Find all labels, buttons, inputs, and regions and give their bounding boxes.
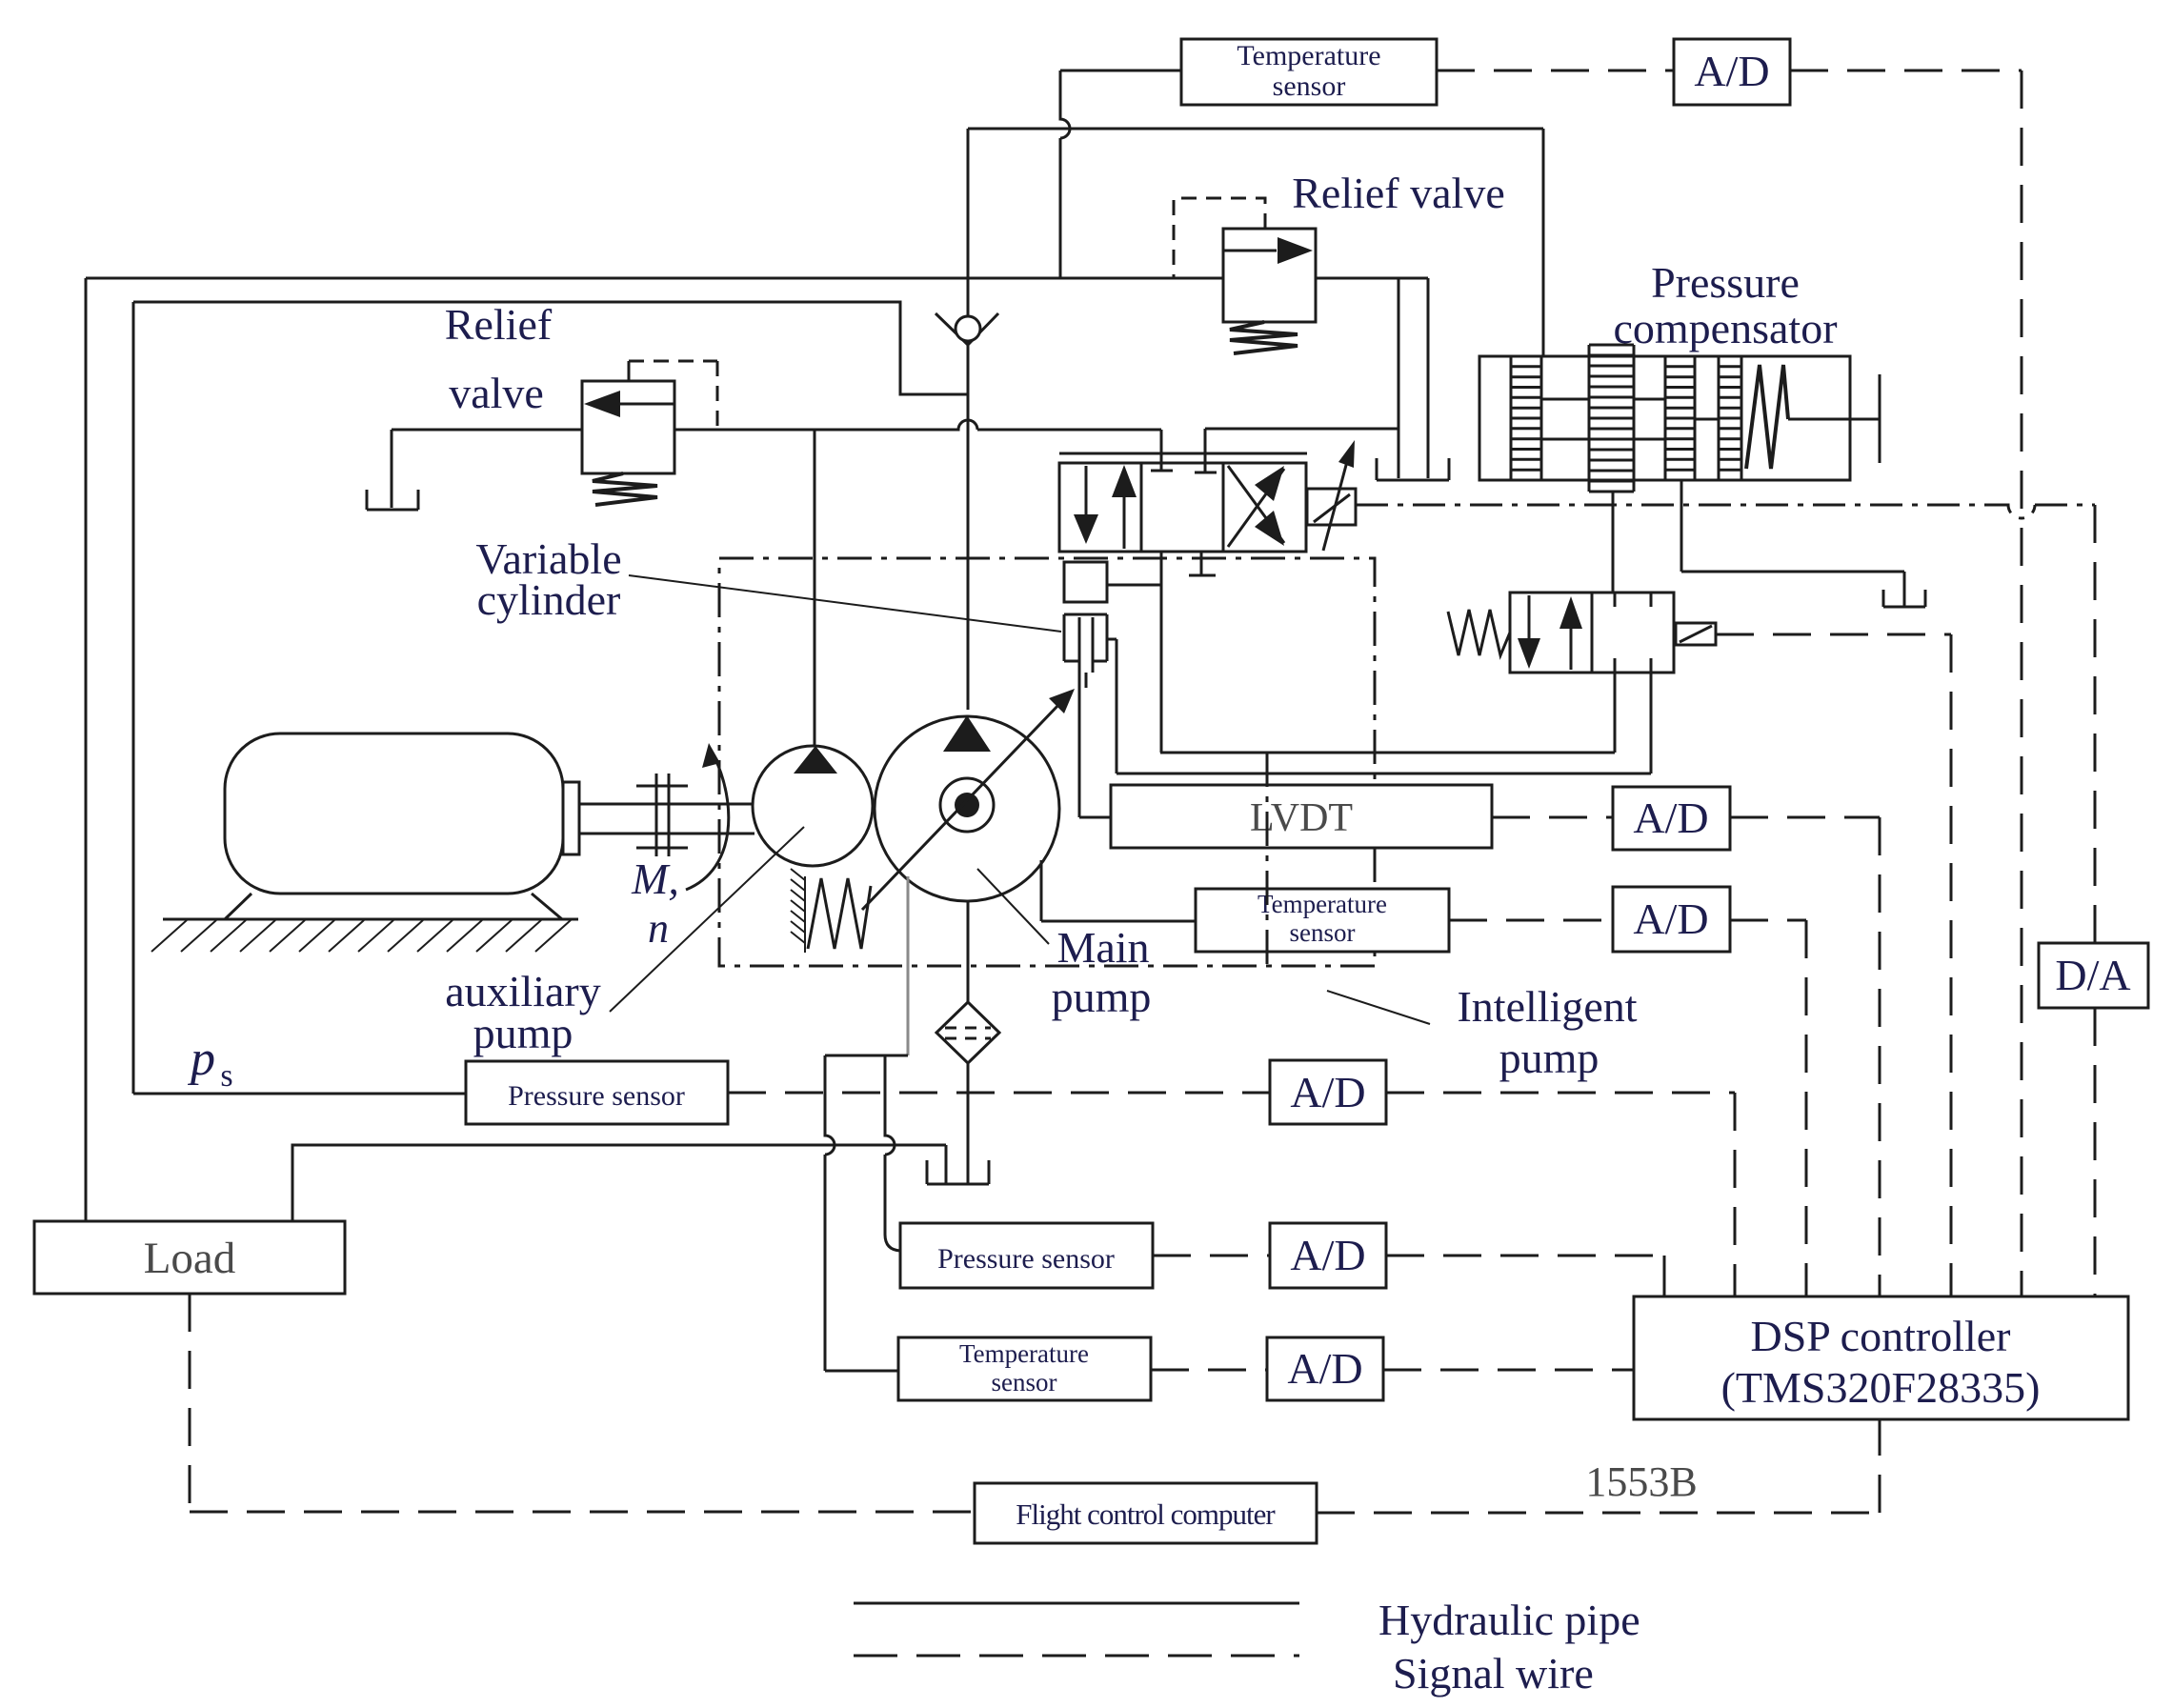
Temperature sensor box 3: [898, 1337, 1151, 1400]
check valve on main riser: [936, 313, 998, 345]
wire inner-rect left: [132, 302, 135, 1094]
wire cylinder upper port to servo pilot: [1107, 584, 1161, 587]
main pump circle: [875, 716, 1059, 901]
main pump variable-displacement arrow: [862, 703, 1060, 910]
servo valve V1 body left cell: [1059, 463, 1141, 552]
wire drain header to sensors: [825, 1055, 908, 1057]
wire loop y=812 to 2-pos valve right port: [1117, 673, 1651, 774]
2-pos valve V2 arrows: [1528, 595, 1531, 640]
wire main pump outlet down to filter: [967, 901, 970, 1002]
svg-text:Main: Main: [1056, 923, 1149, 972]
wire outer-rect top: main supply line y=292: [86, 277, 1428, 280]
wire temperature-sensor tap with jump arc over y=135 header: [1060, 70, 1183, 278]
wire drop from main line x=1468 to tank B: [1398, 278, 1400, 478]
main pump triangle: [943, 715, 991, 752]
compensator spring: [1746, 365, 1788, 469]
svg-text:A/D: A/D: [1633, 794, 1708, 842]
signal wire 1553B bus: [1317, 1512, 1880, 1515]
servo valve V1 body mid cell: [1141, 463, 1223, 552]
wire filter to tank C: [967, 1063, 970, 1184]
auxiliary pump circle: [753, 746, 873, 866]
2-pos valve V2 solenoid: [1676, 623, 1716, 645]
wire LVDT pickup from cylinder: [1079, 673, 1111, 817]
2-pos valve V2 spring: [1448, 610, 1510, 655]
svg-text:Temperature: Temperature: [959, 1339, 1089, 1368]
svg-text:A/D: A/D: [1694, 47, 1769, 95]
svg-text:A/D: A/D: [1287, 1344, 1362, 1393]
2-pos valve V2 left cell: [1510, 593, 1592, 673]
servo valve V1 proportional solenoid box: [1307, 489, 1356, 525]
svg-text:A/D: A/D: [1633, 894, 1708, 943]
wire auxiliary-pump riser x=855: [814, 430, 816, 746]
variable cylinder upper chamber: [1064, 562, 1107, 602]
compensator ladder band D: [1719, 356, 1741, 480]
signal wire LVDT to A/D: [1492, 816, 1613, 819]
svg-text:Pressure sensor: Pressure sensor: [937, 1243, 1115, 1275]
svg-text:pump: pump: [1499, 1034, 1600, 1082]
signal wire ps1 A/D down to DSP: [1386, 1092, 1735, 1095]
Load box: [34, 1221, 345, 1294]
compensator spring seat line and anchor: [1788, 374, 1880, 463]
svg-text:sensor: sensor: [992, 1368, 1057, 1397]
motor supports: [225, 894, 562, 919]
motor body: [225, 733, 563, 894]
rotation arrow: [686, 757, 729, 890]
svg-text:A/D: A/D: [1290, 1068, 1365, 1116]
LVDT mechanical link (dash-dot): [1266, 753, 1269, 966]
svg-text:D/A: D/A: [2055, 951, 2130, 999]
shaft coupling: [636, 774, 688, 856]
Temperature sensor box 1 (top): [1181, 39, 1437, 105]
servo valve V1 cover line: [1059, 452, 1307, 455]
signal wire ps2 to A/D: [1153, 1255, 1270, 1257]
D/A box: [2039, 943, 2148, 1008]
svg-text:Temperature: Temperature: [1258, 890, 1387, 918]
A/D box LVDT row: [1613, 787, 1730, 850]
wire main pump to temp sensor 2: [1041, 860, 1196, 921]
LVDT box: [1111, 785, 1492, 848]
signal wire Load to flight control computer (dashed): [189, 1294, 191, 1512]
tank B (top relief valve drain): [1377, 458, 1449, 480]
compensator step connectors: [1541, 399, 1719, 439]
A/D box ps2 row: [1270, 1223, 1386, 1288]
relief valve (top) body: [1223, 229, 1316, 322]
svg-text:pump: pump: [1052, 973, 1152, 1021]
relief valve (top) spring: [1230, 322, 1298, 353]
A/D box top: [1674, 39, 1790, 105]
intelligent pump boundary (dash-dot): [719, 558, 1375, 966]
signal wire LVDT A/D down to DSP: [1730, 816, 1880, 819]
wire compensator spool to 2-pos valve top port: [1612, 492, 1615, 593]
servo valve V1 right cell crossed arrows: [1228, 469, 1284, 547]
svg-text:Flight control computer: Flight control computer: [1016, 1497, 1276, 1531]
signal wire solenoid V2 to DSP: [1716, 633, 1951, 636]
svg-text:DSP controller: DSP controller: [1751, 1312, 2011, 1360]
wire top relief valve outlet drop x=1499: [1427, 278, 1430, 478]
wire outer-rect left: supply line ps down to Load: [85, 278, 88, 1221]
svg-text:compensator: compensator: [1613, 304, 1837, 352]
legend hydraulic pipe sample: [854, 1602, 1299, 1605]
filter diamond: [936, 1002, 999, 1063]
wire return from Load line into tank C: [945, 1145, 948, 1184]
svg-text:(TMS320F28335): (TMS320F28335): [1721, 1363, 2041, 1412]
relief valve (left) arrow: [619, 403, 674, 406]
signal wire A/D top to right bus x=2122: [1790, 70, 2022, 72]
signal wire temp3 to A/D: [1151, 1369, 1267, 1372]
auxiliary pump swash spring: [808, 878, 871, 949]
relief valve (top) arrow: [1223, 250, 1277, 252]
motor flange: [563, 782, 579, 854]
wire tank drop left relief valve: [391, 430, 393, 508]
svg-text:Pressure: Pressure: [1651, 258, 1800, 307]
auxiliary pump swash spring hatch wall: [791, 869, 805, 953]
compensator drain to 2-pos valve area: [1681, 480, 1904, 607]
svg-text:valve: valve: [449, 369, 544, 417]
DSP controller box: [1634, 1296, 2128, 1419]
pointer variable cylinder: [629, 575, 1061, 632]
relief valve (left) spring: [593, 473, 657, 505]
wire sensor drop x=929 with jump arc, hook into Pressure sensor 2: [885, 1055, 900, 1251]
signal wire temp3 A/D to DSP left edge: [1383, 1369, 1634, 1372]
variable cylinder rod: [1079, 617, 1093, 688]
ground line and hatching: [163, 918, 578, 921]
motor shaft: [579, 804, 755, 834]
svg-text:M,: M,: [631, 854, 679, 903]
svg-text:Relief: Relief: [445, 300, 553, 349]
signal wire D/A to DSP: [2094, 1008, 2097, 1296]
compensator ladder band B (tall): [1589, 345, 1634, 492]
pointer intelligent pump: [1327, 991, 1430, 1024]
svg-text:Load: Load: [144, 1234, 236, 1283]
pointer auxiliary pump: [610, 827, 804, 1012]
wire loop y=790 to 2-pos valve left port: [1160, 673, 1615, 753]
auxiliary pump triangle: [794, 746, 837, 774]
svg-text:n: n: [648, 905, 669, 952]
Flight control computer box: [975, 1483, 1317, 1543]
pressure compensator outer box: [1479, 356, 1850, 480]
svg-text:Intelligent: Intelligent: [1457, 982, 1637, 1031]
legend signal wire sample: [854, 1655, 1299, 1658]
svg-text:Signal wire: Signal wire: [1393, 1649, 1594, 1698]
variable cylinder lower chamber walls: [1064, 614, 1107, 673]
A/D box temp2 row: [1613, 887, 1730, 952]
Temperature sensor box 2: [1196, 889, 1449, 952]
2-pos valve V2 bottom ports to loops: [1615, 673, 1651, 774]
relief valve (top) pilot dashed: [1174, 198, 1265, 278]
svg-text:cylinder: cylinder: [477, 575, 621, 624]
wire cylinder lower port: [1107, 639, 1117, 774]
svg-text:sensor: sensor: [1290, 918, 1356, 947]
svg-text:pump: pump: [473, 1009, 573, 1057]
wire relief-valve branch y=451 with jump arc over x=1016: [392, 420, 1161, 430]
servo valve V1 top pilots: [1151, 430, 1173, 471]
signal wire temp1 to A/D: [1437, 70, 1674, 72]
relief valve (left) body: [582, 381, 674, 473]
A/D box temp3 row: [1267, 1337, 1383, 1400]
wire check-valve / main-pump riser x=1016: [967, 129, 970, 710]
signal wire servo solenoid to DSP (dash-dot) with jog over x=2122: [1356, 505, 2095, 518]
signal wire ps1 to A/D: [728, 1092, 1270, 1095]
wire top header y=135 to pressure compensator: [968, 129, 1543, 356]
signal wire temp2 A/D down to DSP: [1730, 919, 1806, 922]
2-pos valve V2 right cell: [1592, 593, 1674, 673]
svg-text:p: p: [187, 1032, 215, 1086]
wire Load to tank return line: [292, 1145, 946, 1221]
svg-text:Pressure sensor: Pressure sensor: [508, 1080, 685, 1112]
signal wire ps2 A/D to DSP: [1386, 1255, 1664, 1257]
pointer main pump: [977, 869, 1049, 944]
svg-text:Temperature: Temperature: [1237, 40, 1380, 71]
wire sensor drop x=866 with jump arc over y=1202, to Temperature sensor 3: [825, 1055, 898, 1371]
wire servo-valve right pilot drain y=450: [1205, 428, 1398, 431]
servo valve V1 proportional arrow: [1323, 454, 1349, 551]
compensator ladder band A: [1511, 356, 1541, 480]
variable cylinder piston: [1064, 602, 1107, 614]
tank A (left relief valve drain): [367, 490, 418, 510]
compensator ladder band C: [1665, 356, 1695, 480]
tank C (main return): [927, 1160, 989, 1184]
svg-text:sensor: sensor: [1273, 70, 1346, 102]
tank D (compensator drain): [1883, 590, 1925, 607]
main pump inner circle and dot: [940, 778, 994, 832]
svg-text:LVDT: LVDT: [1250, 796, 1353, 840]
relief valve (left) pilot dashed: [628, 361, 631, 381]
svg-text:A/D: A/D: [1290, 1231, 1365, 1279]
2-pos valve V2 right cell port ticks: [1615, 593, 1651, 673]
A/D box ps1 row: [1270, 1060, 1386, 1124]
Pressure sensor box 2: [900, 1223, 1153, 1288]
wire inner-rect to Pressure sensor 1: [133, 1093, 466, 1095]
svg-text:s: s: [220, 1058, 232, 1094]
svg-text:Relief valve: Relief valve: [1292, 169, 1505, 217]
servo valve V1 left cell arrows: [1085, 466, 1088, 516]
svg-text:Hydraulic pipe: Hydraulic pipe: [1378, 1596, 1640, 1644]
svg-text:1553B: 1553B: [1585, 1458, 1697, 1505]
gray case drain from pump junction: [907, 876, 910, 1055]
servo valve V1 body right cell: [1223, 463, 1306, 552]
signal wire temp2 to A/D: [1449, 919, 1613, 922]
Pressure sensor box 1: [466, 1061, 728, 1124]
servo valve V1 bottom pilot right (plugged): [1189, 552, 1216, 575]
wire inner-rect top with jog to check-valve line: [133, 302, 968, 394]
servo valve V1 bottom pilot left going to cylinder loop: [1160, 552, 1163, 753]
